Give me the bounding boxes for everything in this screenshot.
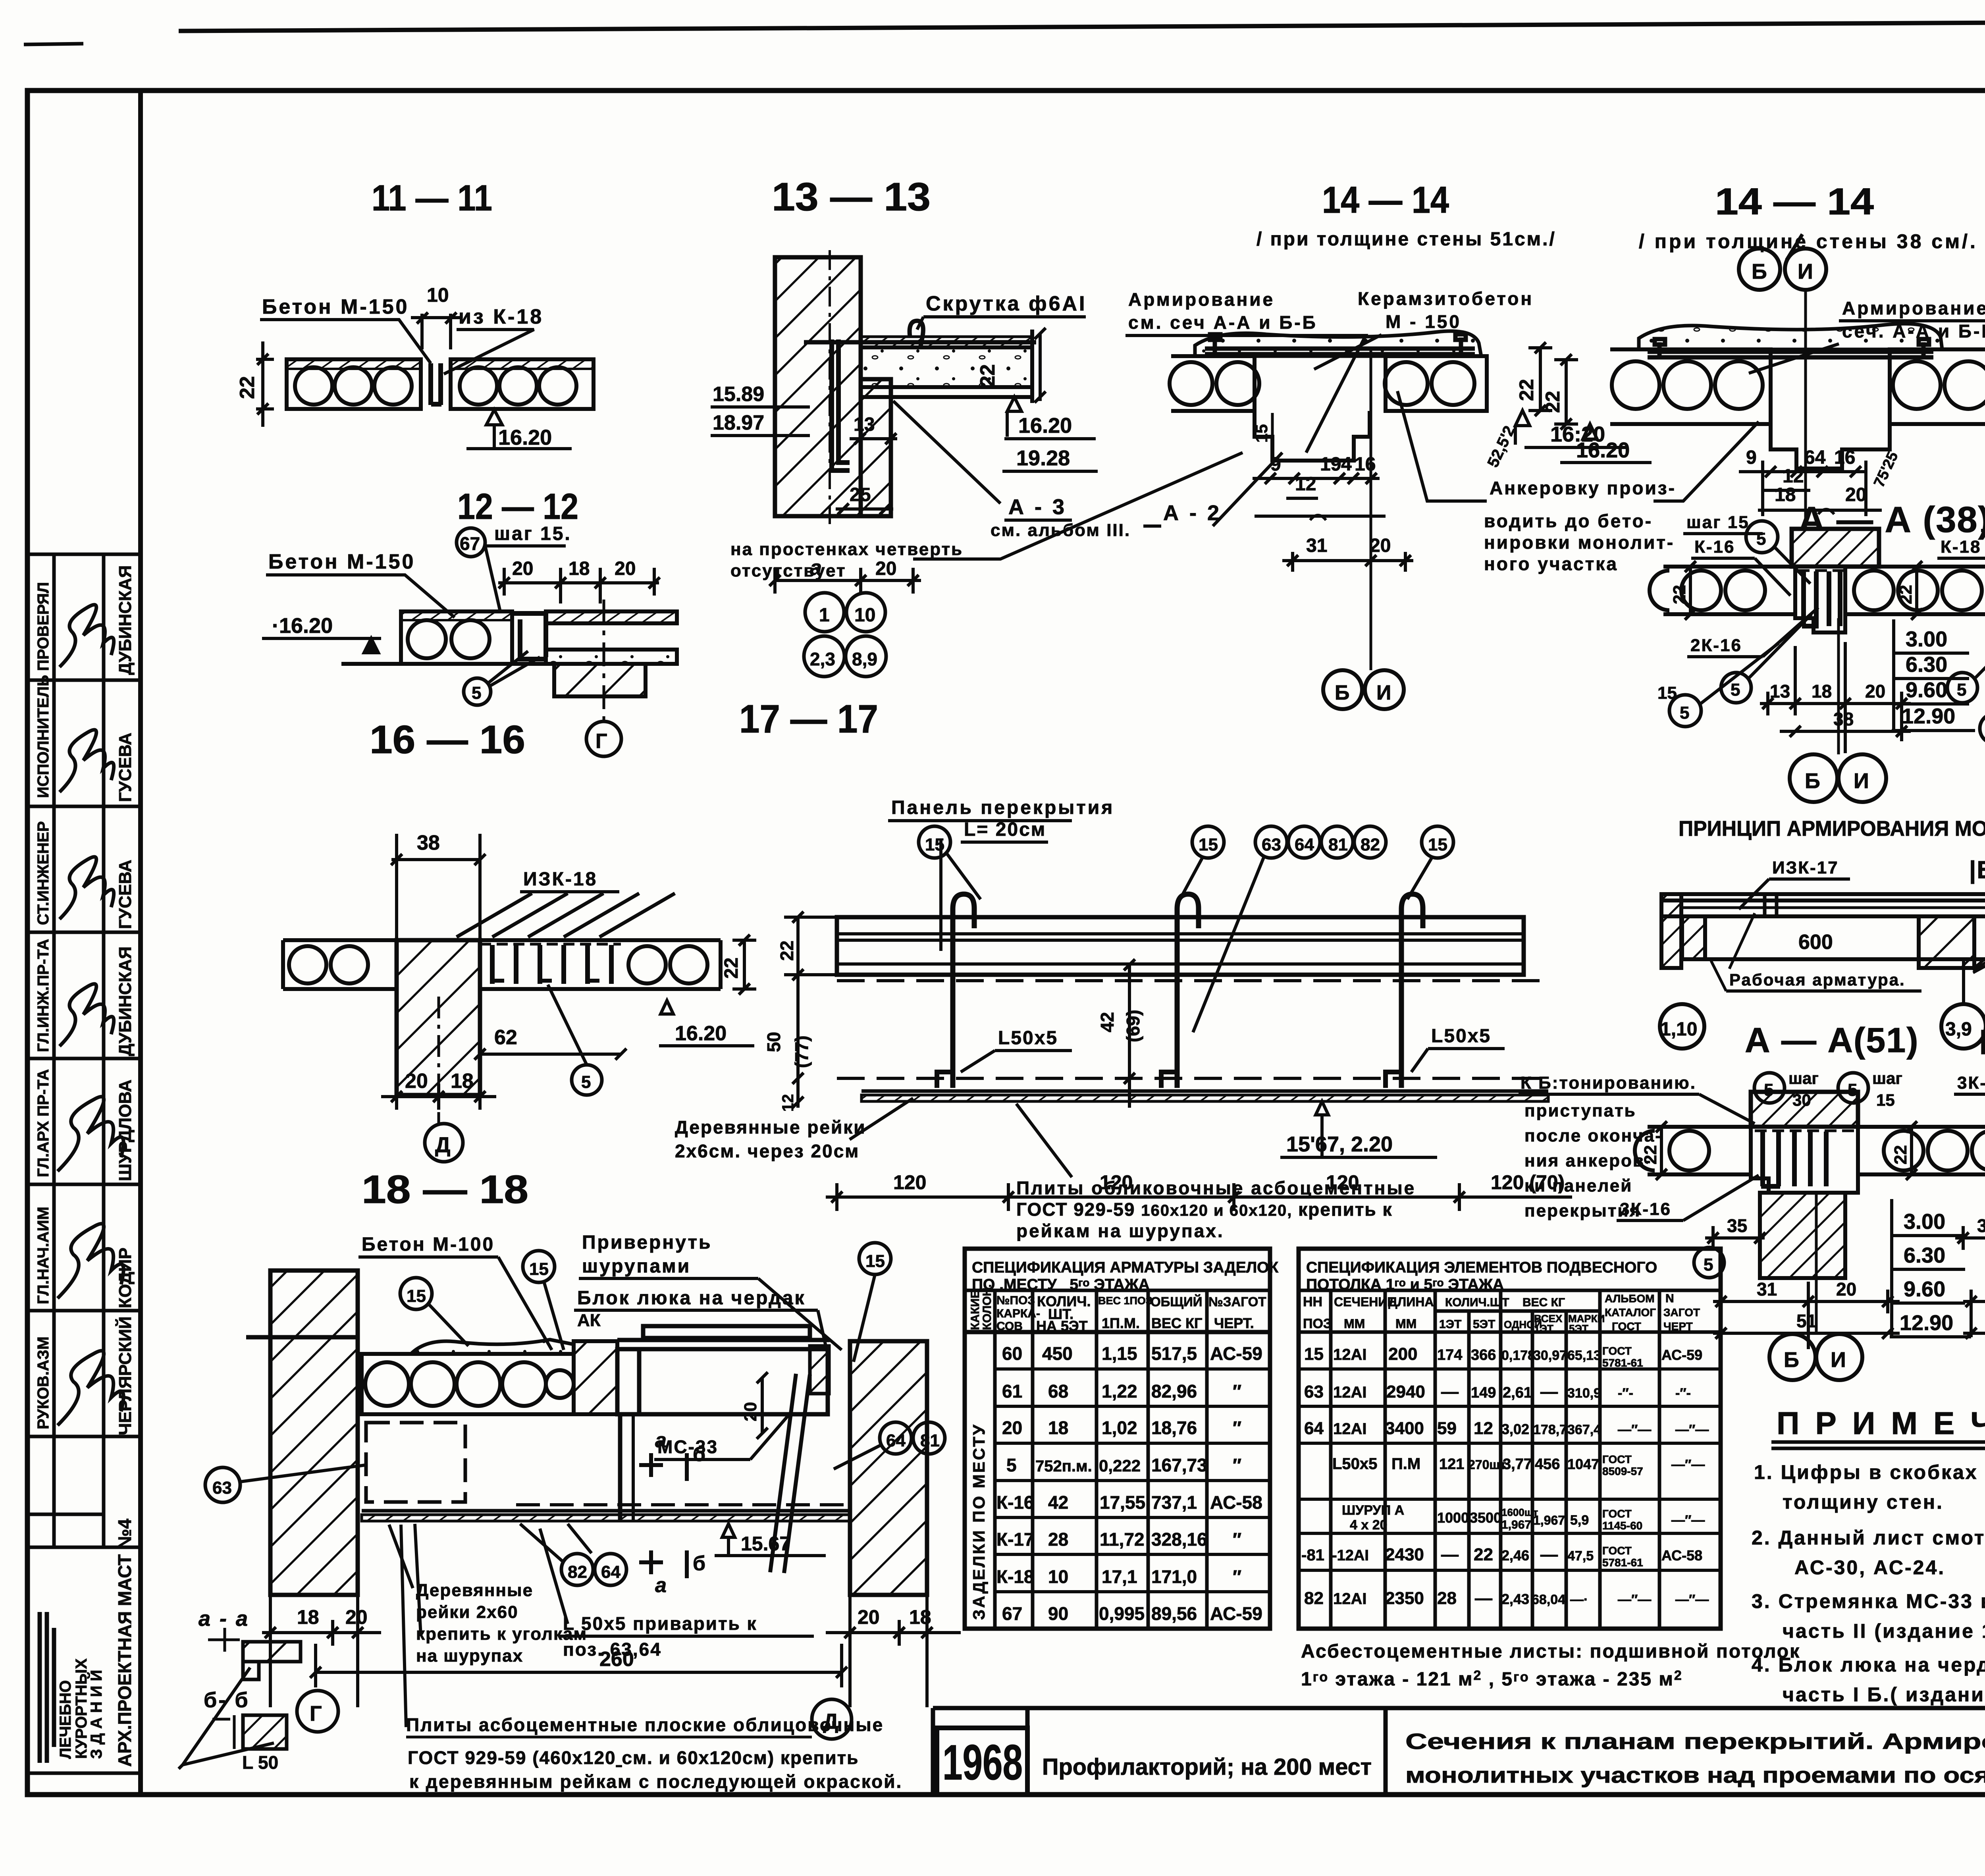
left table header [969,1284,1266,1334]
right wall 18-18 [850,1341,927,1595]
svg-text:12АI: 12АI [1333,1420,1367,1438]
svg-text:18: 18 [451,1070,474,1093]
svg-text:Бетон М-150: Бетон М-150 [268,550,415,573]
joint between panels [421,359,451,409]
dim 22 left of slab [256,341,274,427]
svg-text:15'67, 2.20: 15'67, 2.20 [1286,1132,1393,1156]
svg-text:20: 20 [1370,535,1391,556]
svg-text:328,16: 328,16 [1151,1529,1207,1550]
svg-text:2350: 2350 [1385,1589,1424,1608]
left slab 14-51 [1170,356,1259,411]
concrete cap 14-38 [1639,324,1942,349]
svg-text:737,1: 737,1 [1151,1492,1197,1513]
svg-text:12.90: 12.90 [1900,1311,1953,1335]
svg-text:90: 90 [1048,1603,1068,1624]
svg-text:47,5: 47,5 [1567,1548,1594,1564]
svg-text:16 — 16: 16 — 16 [370,717,525,762]
svg-text:Привернуть: Привернуть [582,1232,712,1253]
wall T 16-16 [397,940,480,1095]
svg-text:см. альбом III.: см. альбом III. [991,521,1131,540]
svg-text:12: 12 [779,1094,797,1112]
svg-text:15.89: 15.89 [713,383,764,406]
svg-text:1ЭТ: 1ЭТ [1534,1323,1553,1334]
svg-text:64: 64 [886,1431,906,1450]
svg-text:·16.20: ·16.20 [272,614,333,638]
svg-text:17,1: 17,1 [1102,1566,1137,1587]
svg-text:Скрутка ф6АI: Скрутка ф6АI [926,292,1087,315]
svg-text:22: 22 [1474,1545,1493,1564]
pos circle 5 cluster1 top [1746,521,1778,553]
monolith step outline 14-38 [1771,424,1890,469]
svg-text:120: 120 [893,1171,926,1193]
svg-text:5781-61: 5781-61 [1602,1357,1643,1369]
slab band row A-A(38) [1650,567,1985,614]
svg-text:171,0: 171,0 [1151,1566,1197,1587]
slab band 13-13 [861,330,1032,403]
svg-text:3К-16: 3К-16 [1957,1073,1985,1093]
svg-text:ния анкеров-: ния анкеров- [1524,1151,1652,1170]
circle Д top [443,1142,444,1143]
svg-text:СПЕЦИФИКАЦИЯ АРМАТУРЫ ЗАДЕЛОК: СПЕЦИФИКАЦИЯ АРМАТУРЫ ЗАДЕЛОК [972,1259,1278,1276]
svg-text:Блок люка на чердак: Блок люка на чердак [577,1288,806,1309]
svg-text:12: 12 [1474,1419,1493,1438]
svg-text:Анкеровку произ-: Анкеровку произ- [1490,478,1676,498]
svg-text:б: б [693,1552,705,1575]
svg-text:ГОСТ: ГОСТ [1602,1544,1632,1557]
svg-text:ММ: ММ [1395,1317,1416,1331]
svg-text:ИСПОЛНИТЕЛЬ: ИСПОЛНИТЕЛЬ [35,675,52,798]
svg-text:3.00: 3.00 [1906,627,1947,651]
svg-text:a: a [655,1429,667,1452]
svg-text:450: 450 [1042,1343,1073,1364]
level 16.20 [1515,411,1530,426]
ladder МС-33 piece [770,1374,810,1573]
svg-text:ГОСТ: ГОСТ [1602,1345,1632,1357]
svg-text:149: 149 [1471,1384,1496,1401]
section cluster А-А(51) [1641,1092,1900,1380]
svg-text:2. Данный лист смотреть сов: 2. Данный лист смотреть совместно с лист… [1752,1527,1985,1549]
svg-text:18: 18 [297,1606,319,1628]
svg-text:М - 150: М - 150 [1386,311,1461,332]
svg-text:Профилакторий; на 200 мест: Профилакторий; на 200 мест [1042,1754,1372,1780]
svg-text:СОВ: СОВ [996,1320,1023,1333]
svg-text:16.20: 16.20 [498,426,552,449]
concrete cap on slab [411,1340,574,1354]
svg-text:22: 22 [236,376,259,399]
section cluster Б-Б(38) #1 [1896,529,1985,802]
vertical dim 42(69) [1124,959,1135,1108]
dim 22 right [1528,342,1552,416]
svg-text:3,77: 3,77 [1503,1456,1532,1473]
svg-text:″: ″ [1233,1566,1241,1587]
leader fan [1973,909,1985,973]
svg-text:А - 2: А - 2 [1163,501,1222,525]
svg-text:часть I Б.( издание 1964 г.): часть I Б.( издание 1964 г.) [1783,1683,1985,1706]
svg-text:752п.м.: 752п.м. [1035,1458,1092,1475]
svg-text:—: — [1540,1382,1558,1402]
svg-text:З Д А Н И Й: З Д А Н И Й [87,1670,105,1759]
elevation stack 3.00 6.30 9.60 12.90 [1902,627,1955,728]
svg-text:А — А(51): А — А(51) [1745,1020,1919,1060]
svg-text:18.97: 18.97 [713,411,764,434]
svg-text:-12АI: -12АI [1332,1547,1369,1564]
svg-text:6.30: 6.30 [1906,653,1947,677]
svg-text:42: 42 [1097,1012,1118,1032]
svg-text:—″—: —″— [1675,1422,1709,1437]
svg-text:42: 42 [1048,1492,1068,1513]
axis circles 1,10,2,3,8,9 [804,593,886,677]
svg-text:КОЛОН.: КОЛОН. [981,1284,994,1330]
svg-text:ШУРДЛОВА: ШУРДЛОВА [116,1080,135,1181]
svg-text:16: 16 [1355,454,1376,475]
svg-text:63: 63 [212,1478,232,1498]
svg-text:20: 20 [512,558,533,579]
svg-text:260: 260 [599,1648,634,1671]
svg-text:из К-18: из К-18 [459,305,543,328]
panel body [837,917,1524,975]
svg-text:|Б: |Б [1969,856,1985,884]
svg-text:Плиты обликовочные асбоцемен: Плиты обликовочные асбоцементные [1016,1178,1416,1198]
svg-text:17,55: 17,55 [1100,1492,1145,1513]
svg-text:шаг: шаг [1872,1069,1902,1087]
svg-text:ГОСТ: ГОСТ [1602,1508,1632,1520]
right slab 14-38 [1890,349,1985,424]
svg-text:1,15: 1,15 [1102,1343,1137,1364]
svg-text:-″-: -″- [1675,1386,1691,1401]
svg-text:5: 5 [1848,1080,1857,1100]
svg-text:50: 50 [763,1032,784,1052]
svg-text:водить до бето-: водить до бето- [1484,511,1653,531]
svg-text:28: 28 [1048,1529,1068,1550]
svg-text:89,56: 89,56 [1151,1603,1197,1624]
svg-text:-81: -81 [1301,1546,1324,1564]
svg-text:№ЗАГОТ: №ЗАГОТ [1208,1294,1266,1309]
svg-text:18,76: 18,76 [1151,1417,1197,1438]
level 15.67 [722,1524,735,1537]
svg-text:30,97: 30,97 [1533,1348,1567,1363]
svg-text:СЕЧЕНИЕ: СЕЧЕНИЕ [1334,1295,1396,1309]
svg-text:28: 28 [1437,1589,1457,1608]
svg-text:600: 600 [1798,931,1833,954]
circle 5 under cluster1 [1694,1247,1724,1278]
svg-text:6.30: 6.30 [1904,1244,1945,1267]
svg-text:ОБЩИЙ: ОБЩИЙ [1151,1294,1202,1309]
svg-text:1,967: 1,967 [1501,1518,1531,1531]
svg-text:82: 82 [1361,835,1380,854]
svg-text:ШУРУП А: ШУРУП А [1342,1503,1404,1518]
svg-text:ГЛ.НАЧ.АИМ: ГЛ.НАЧ.АИМ [35,1207,52,1304]
axis circles 1,10 3,9 4,8 5,7 [1660,1004,1704,1049]
svg-text:2х6см. через 20см: 2х6см. через 20см [675,1141,860,1161]
svg-text:—: — [1441,1545,1459,1564]
ceiling strip [861,1091,1548,1101]
svg-text:1. Цифры в скобках в сечениях: 1. Цифры в скобках в сечениях А-А и Б-Б … [1754,1461,1985,1483]
svg-text:0,222: 0,222 [1099,1456,1141,1475]
svg-text:шаг 15: шаг 15 [1686,513,1750,532]
svg-text:20: 20 [405,1070,428,1093]
slab band row A-A(51) [1635,1127,1985,1174]
svg-text:5,9: 5,9 [1570,1513,1589,1528]
svg-text:5: 5 [1704,1255,1713,1274]
svg-text:К-18: К-18 [996,1566,1034,1587]
svg-text:″: ″ [1233,1417,1241,1438]
svg-text:ПРОВЕРЯЛ: ПРОВЕРЯЛ [35,582,52,671]
svg-text:65,13: 65,13 [1567,1348,1601,1363]
svg-text:12 — 12: 12 — 12 [457,486,578,527]
svg-text:18 — 18: 18 — 18 [362,1167,528,1212]
svg-text:L50х5: L50х5 [1431,1026,1491,1047]
svg-text:крепить к уголкам: крепить к уголкам [416,1624,587,1644]
svg-text:1П.М.: 1П.М. [1102,1315,1140,1331]
svg-text:на простенках четверть: на простенках четверть [730,540,963,559]
scanned sheet top edge [179,20,1985,31]
svg-text:10: 10 [1048,1566,1068,1587]
svg-text:ЧЕРТ.: ЧЕРТ. [1214,1315,1254,1331]
svg-text:3.00: 3.00 [1904,1210,1945,1234]
svg-text:1го этажа - 121 м2 , 5го эта: 1го этажа - 121 м2 , 5го этажа - 235 м2 [1301,1668,1683,1690]
svg-text:9.60: 9.60 [1906,678,1947,702]
svg-text:АС-58: АС-58 [1661,1547,1702,1564]
svg-text:0,178: 0,178 [1501,1348,1535,1363]
svg-text:ВЕС 1ПОЗ: ВЕС 1ПОЗ [1098,1295,1152,1307]
люк opening structure [617,1326,830,1414]
svg-text:—″—: —″— [1671,1457,1705,1472]
svg-text:62: 62 [494,1026,517,1049]
svg-text:К-17: К-17 [996,1529,1034,1550]
svg-text:—: — [1475,1589,1492,1608]
svg-text:отсутствует: отсутствует [730,561,846,580]
suspension hooks [953,894,1423,1088]
svg-text:—″—: —″— [1671,1513,1705,1528]
svg-text:П.М: П.М [1391,1455,1420,1473]
svg-text:11 — 11: 11 — 11 [372,178,492,218]
svg-text:19.28: 19.28 [1016,446,1070,470]
section cluster A-A(38) #1 [1670,529,1911,802]
svg-text:10: 10 [427,284,449,306]
svg-text:8509-57: 8509-57 [1602,1465,1643,1477]
pos circle 67 [457,528,485,557]
svg-text:ВЕС КГ: ВЕС КГ [1151,1315,1202,1331]
svg-text:/ при толщине стены 51см./: / при толщине стены 51см./ [1257,229,1556,250]
svg-text:1047: 1047 [1567,1456,1599,1472]
svg-text:N: N [1665,1292,1674,1305]
svg-text:12АI: 12АI [1333,1384,1367,1401]
svg-text:10: 10 [854,605,875,626]
svg-text:ПОЗ: ПОЗ [1303,1316,1332,1331]
svg-text:3. Стремянка МС-33 взята по: 3. Стремянка МС-33 взята по каталогу ИИ-… [1752,1590,1985,1612]
axis line and circle Г [603,600,605,721]
svg-text:20: 20 [741,1402,760,1421]
svg-text:2,3: 2,3 [810,649,835,669]
svg-text:270шт: 270шт [1468,1458,1506,1472]
leader hatch fan [457,893,675,937]
svg-text:22: 22 [721,958,742,979]
level 16.20 left [1583,424,1597,439]
svg-text:1,22: 1,22 [1102,1381,1137,1402]
right thin panel 12-12 [546,611,677,664]
left slab 16-16 [283,940,397,989]
steel angle in wall [832,339,850,470]
pier 2 [1919,916,1974,968]
svg-text:2940: 2940 [1386,1382,1425,1402]
axis lines Б И [1370,349,1372,670]
svg-text:5: 5 [1764,1080,1773,1100]
svg-text:Панель перекрытия: Панель перекрытия [891,797,1114,818]
circles 64 81 right [880,1422,912,1454]
svg-text:КОЛИЧ.ШТ: КОЛИЧ.ШТ [1445,1296,1509,1309]
svg-text:1ЭТ: 1ЭТ [1439,1318,1461,1331]
svg-text:11,72: 11,72 [1100,1529,1145,1550]
svg-text:РУКОВ.АЗМ: РУКОВ.АЗМ [35,1336,52,1429]
lower dashed line [837,1077,1548,1080]
slab 11-11 right panel [451,359,594,409]
levels 16.20 / 19.28 [1007,397,1021,411]
svg-text:ММ: ММ [1344,1317,1365,1331]
svg-text:Бетон М-100: Бетон М-100 [362,1234,495,1255]
svg-text:К-18: К-18 [1941,537,1981,557]
axis line down [1804,290,1807,564]
svg-text:АС-59: АС-59 [1210,1603,1262,1624]
leader triangle bottom left [179,1668,274,1769]
svg-text:СПЕЦИФИКАЦИЯ ЭЛЕМЕНТОВ ПОДВЕСН: СПЕЦИФИКАЦИЯ ЭЛЕМЕНТОВ ПОДВЕСНОГО [1306,1259,1657,1276]
svg-text:Г: Г [310,1702,322,1726]
svg-text:1968: 1968 [942,1735,1023,1790]
svg-text:№ПОЗ: №ПОЗ [996,1294,1035,1307]
svg-text:ЗАГОТ: ЗАГОТ [1663,1306,1700,1319]
beam elevation [1661,894,1985,959]
svg-text:456: 456 [1535,1456,1560,1473]
wire hook [910,321,923,348]
svg-text:178,7: 178,7 [1533,1422,1567,1437]
labels шаг30/шаг15 cluster1 [1754,1073,1785,1103]
sidebar divider [138,91,143,1795]
svg-text:—″—: —″— [1618,1422,1651,1437]
svg-text:12АI: 12АI [1333,1346,1367,1363]
right table header [1303,1292,1700,1334]
dashed box (asbestos panel zone) [366,1423,465,1502]
svg-text:64: 64 [1804,447,1826,468]
bottom dims 120 x4 [826,1183,1572,1211]
svg-text:Армирование: Армирование [1128,289,1275,310]
svg-text:15: 15 [1304,1344,1324,1364]
svg-text:А - 3: А - 3 [1008,495,1067,519]
svg-text:366: 366 [1471,1347,1496,1363]
svg-text:16.20: 16.20 [1576,438,1630,462]
svg-text:см. сеч А-А и Б-Б: см. сеч А-А и Б-Б [1128,312,1318,333]
svg-text:120 (70): 120 (70) [1491,1171,1565,1193]
left wall 18-18 [270,1271,358,1595]
svg-text:ПРИНЦИП АРМИРОВАНИЯ МОНОЛИТНЫХ: ПРИНЦИП АРМИРОВАНИЯ МОНОЛИТНЫХ УЧАСТКОВ … [1679,817,1985,841]
svg-text:59: 59 [1437,1419,1457,1438]
svg-text:АС-58: АС-58 [1210,1492,1262,1513]
svg-text:82: 82 [568,1562,587,1582]
svg-text:ПРИМЕЧАНИЯ :: ПРИМЕЧАНИЯ : [1777,1406,1985,1441]
svg-text:15: 15 [1428,835,1447,854]
svg-text:67: 67 [460,533,480,554]
svg-text:рейкам на шурупах.: рейкам на шурупах. [1016,1220,1224,1241]
svg-text:5ЭТ: 5ЭТ [1569,1323,1588,1334]
axis dashed in wall [829,250,831,524]
bottom stamp block [27,1772,141,1775]
svg-text:81: 81 [1328,835,1348,854]
dim 20 small [757,1372,768,1439]
svg-text:30: 30 [1792,1091,1811,1109]
monolithic concrete cap (wavy) [1195,331,1481,356]
svg-text:12: 12 [1295,474,1316,495]
svg-text:5: 5 [1680,703,1689,723]
svg-text:КАРКА-: КАРКА- [996,1307,1040,1320]
svg-text:2,43: 2,43 [1501,1591,1529,1607]
svg-text:КАТАЛОГ: КАТАЛОГ [1605,1306,1656,1319]
svg-text:ДУБИНСКАЯ: ДУБИНСКАЯ [116,565,135,675]
svg-text:22: 22 [777,941,797,961]
svg-text:38: 38 [417,831,440,854]
svg-text:Г: Г [595,730,607,753]
svg-text:15: 15 [407,1286,426,1306]
svg-text:15: 15 [1876,1091,1895,1109]
dim 22 right of slab [1035,328,1046,403]
svg-text:рейки 2х60: рейки 2х60 [416,1602,518,1622]
axis circle Д [437,997,440,1124]
svg-text:3К-16: 3К-16 [1620,1199,1671,1219]
svg-text:13: 13 [854,414,875,435]
svg-text:22: 22 [1542,391,1564,413]
svg-text:И: И [1798,260,1813,283]
top bar over left wall [246,1335,358,1340]
svg-text:16.20: 16.20 [675,1022,727,1045]
svg-text:шаг 15.: шаг 15. [494,523,572,544]
svg-text:12.90: 12.90 [1902,704,1955,728]
hatch block right of slab [574,1341,617,1414]
text К бетонированию приступать [1521,1073,1696,1220]
svg-text:14 — 14: 14 — 14 [1322,179,1449,221]
svg-text:ГУСЕВА: ГУСЕВА [116,733,135,802]
svg-text:ИЗК-17: ИЗК-17 [1772,858,1839,877]
svg-text:81: 81 [920,1431,940,1450]
svg-text:5: 5 [472,683,481,703]
svg-text:б: б [693,1443,705,1466]
svg-text:1,02: 1,02 [1102,1417,1137,1438]
level 15.67, 2.20 [1316,1101,1328,1115]
svg-text:20: 20 [615,558,636,579]
svg-text:9: 9 [1746,447,1757,468]
slab with cores 18-18 [362,1354,574,1414]
svg-text:1: 1 [819,605,830,626]
circles 82 64 [561,1554,593,1585]
svg-text:ЧЕРЛЯРСКИЙ: ЧЕРЛЯРСКИЙ [115,1317,135,1435]
svg-text:L 50х5 приварить к: L 50х5 приварить к [563,1613,757,1634]
anchor bars in cap [1205,334,1475,354]
svg-text:Рабочая арматура.: Рабочая арматура. [1729,970,1906,989]
svg-text:″: ″ [1233,1381,1241,1402]
svg-text:ВЕС КГ: ВЕС КГ [1522,1296,1565,1309]
svg-text:18: 18 [1048,1417,1068,1438]
svg-text:к деревянным рейкам с после: к деревянным рейкам с последующей окраск… [409,1771,902,1792]
svg-text:5ЭТ: 5ЭТ [1473,1318,1495,1331]
svg-text:a: a [810,556,822,580]
svg-text:64: 64 [601,1562,621,1582]
svg-text:82: 82 [1304,1589,1324,1608]
svg-text:Б: Б [1752,260,1767,283]
leader из К-18 [444,330,534,374]
right table data [1301,1344,1709,1608]
svg-text:19: 19 [1320,454,1341,475]
svg-text:5: 5 [1006,1455,1017,1475]
svg-text:310,9: 310,9 [1567,1386,1601,1401]
svg-text:АЛЬБОМ: АЛЬБОМ [1605,1292,1655,1305]
svg-text:ИЗК-18: ИЗК-18 [523,869,597,890]
svg-text:2,46: 2,46 [1501,1547,1529,1564]
